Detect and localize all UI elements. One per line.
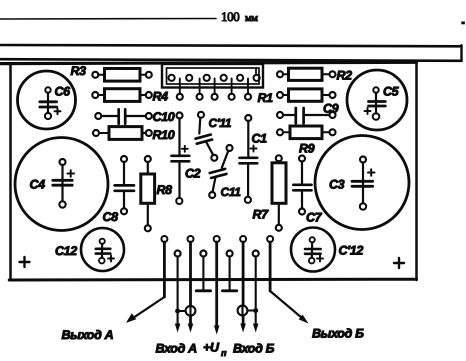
board outline bbox=[0, 62, 417, 280]
svg-text:Вход Б: Вход Б bbox=[233, 342, 275, 356]
connector pads row bbox=[177, 79, 251, 100]
resistor R10 bbox=[93, 127, 175, 142]
svg-text:C5: C5 bbox=[383, 85, 400, 99]
svg-text:C1: C1 bbox=[252, 132, 268, 146]
heatsink bar (side view) bbox=[0, 45, 462, 61]
svg-text:R2: R2 bbox=[337, 69, 353, 83]
wire +Un bbox=[214, 242, 220, 335]
capacitor C7 bbox=[293, 156, 322, 225]
resistor R2 bbox=[277, 68, 352, 82]
svg-text:R1: R1 bbox=[258, 91, 274, 105]
capacitor C11 bbox=[209, 145, 241, 199]
svg-text:C12: C12 bbox=[55, 244, 77, 258]
capacitor C4 bbox=[15, 138, 108, 231]
plus mark bottom-right corner bbox=[394, 258, 404, 268]
svg-text:C4: C4 bbox=[30, 178, 46, 192]
svg-text:R10: R10 bbox=[153, 128, 175, 142]
svg-text:C9: C9 bbox=[323, 102, 339, 116]
capacitor C9 bbox=[277, 102, 339, 124]
resistor R3 bbox=[71, 64, 152, 81]
dimension line 100 mm bbox=[0, 19, 465, 25]
svg-text:C2: C2 bbox=[185, 167, 201, 181]
capacitor C10 bbox=[95, 109, 174, 123]
svg-text:Выход Б: Выход Б bbox=[312, 327, 364, 341]
wire ground stub right bbox=[222, 256, 236, 290]
capacitor C'11 bbox=[196, 112, 232, 161]
resistor R1 bbox=[258, 89, 336, 105]
svg-text:100: 100 bbox=[221, 9, 239, 24]
svg-text:C10: C10 bbox=[153, 110, 175, 124]
plus mark bottom-left corner bbox=[20, 257, 30, 267]
svg-text:R3: R3 bbox=[71, 64, 87, 78]
resistor R7 bbox=[253, 155, 287, 231]
svg-text:C6: C6 bbox=[55, 85, 72, 99]
capacitor C6 bbox=[18, 71, 76, 129]
wire Вход А (right) with insulator bead bbox=[180, 242, 196, 333]
resistor R9 bbox=[277, 126, 336, 156]
svg-text:R9: R9 bbox=[299, 142, 315, 156]
svg-text:C8: C8 bbox=[103, 210, 119, 224]
resistor R8 bbox=[141, 156, 172, 231]
svg-text:мм: мм bbox=[245, 13, 258, 24]
svg-text:C7: C7 bbox=[306, 211, 323, 225]
capacitor C8 bbox=[103, 156, 135, 224]
capacitor C'12 bbox=[291, 228, 363, 272]
svg-text:+U: +U bbox=[203, 341, 220, 355]
svg-text:C′11: C′11 bbox=[209, 116, 232, 130]
wire Выход А bbox=[126, 242, 164, 323]
connector X1 bbox=[162, 64, 263, 88]
capacitor C12 bbox=[55, 228, 124, 271]
wire ground stub left bbox=[196, 256, 210, 290]
wire Выход Б bbox=[270, 242, 308, 324]
svg-text:R7: R7 bbox=[253, 208, 270, 222]
svg-text:C11: C11 bbox=[221, 185, 242, 199]
bottom pad row (outputs/inputs) bbox=[161, 236, 273, 257]
svg-text:C′12: C′12 bbox=[339, 244, 364, 258]
svg-text:C3: C3 bbox=[329, 178, 345, 192]
capacitor C1 bbox=[240, 115, 268, 203]
svg-text:R4: R4 bbox=[153, 90, 169, 104]
svg-text:Вход А: Вход А bbox=[156, 342, 198, 356]
capacitor C5 bbox=[347, 70, 407, 130]
wire Вход А (left) bbox=[175, 256, 181, 332]
label +Un bbox=[203, 341, 227, 359]
capacitor C2 bbox=[172, 113, 201, 205]
svg-text:Выход А: Выход А bbox=[62, 328, 114, 342]
wire Вход Б (right) bbox=[253, 256, 259, 332]
dimension label 100 мм bbox=[221, 9, 258, 24]
svg-text:R8: R8 bbox=[157, 183, 173, 197]
svg-text:п: п bbox=[221, 348, 227, 358]
capacitor C3 bbox=[315, 136, 409, 230]
resistor R4 bbox=[92, 89, 168, 104]
wire Вход Б (left) with insulator bead bbox=[238, 242, 254, 333]
